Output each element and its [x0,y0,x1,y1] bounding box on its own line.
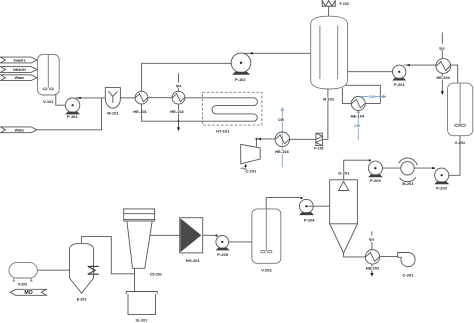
svg-text:lps: lps [369,238,374,242]
wire M-101 to HE-101 [120,97,135,99]
wire HE-101 top riser to P-102 [142,63,240,91]
pump P-101 [65,98,80,114]
wire HG-201 to P-205 [203,234,216,236]
wire V-203 to E-201 [37,269,69,271]
wire F-101 to R-101 bottom [322,89,328,140]
compressor C-101 [241,144,261,164]
svg-text:HE-202: HE-202 [366,265,380,270]
wire E-201 vapor line [82,237,135,274]
wire cyclone downcomer to SL-201 [134,268,136,291]
svg-text:CW: CW [354,124,361,128]
svg-text:HE-104: HE-104 [351,113,365,118]
furnace coil serpentine [142,98,258,121]
rotary feeder M-201 [399,158,418,182]
stream tag NH4OH [1,67,38,73]
wire HE-201 to V-201 [451,65,458,83]
wire P-102 to R-101 [244,52,311,54]
cooling water in HE-104 (blue) [357,111,359,140]
pump P-202 [434,168,449,184]
svg-text:lps: lps [176,84,181,88]
condensate line HE-202 [371,264,373,273]
svg-text:C-201: C-201 [403,272,415,277]
svg-text:C-101: C-101 [245,169,257,174]
stream tag Sugars [1,57,38,63]
svg-text:D-201: D-201 [338,171,350,176]
wire CS-201 to HG-201 [150,234,180,236]
svg-text:P-203: P-203 [370,178,381,183]
pump P-203 [368,161,383,177]
wire V-202 to P-204 [266,197,301,209]
air intake squiggle C-101 [241,165,247,170]
wire V-201 to P-202 [443,136,460,176]
stream tag Water [1,75,38,81]
svg-text:P-202: P-202 [436,185,447,190]
pump P-102 [231,53,251,75]
svg-text:CW: CW [278,118,285,122]
heat exchanger HE-202 [365,250,379,264]
svg-text:Water: Water [15,76,25,80]
homogenizer HG-201 [180,218,203,253]
svg-text:CW: CW [369,95,376,99]
wire HE-101 to HE-102 [148,97,172,99]
svg-text:Water: Water [15,128,25,132]
wire P-201 to HE-201 [404,64,436,66]
heat exchanger HE-201 [436,59,451,74]
tank V-101 [38,54,60,95]
svg-text:M-201: M-201 [402,181,414,186]
svg-text:HE-102: HE-102 [170,109,184,114]
stream tag Water (bottom) [1,127,38,133]
pump P-205 [216,236,230,251]
drum V-203 [9,263,37,282]
heat exchanger HE-102 [172,91,185,104]
heat exchanger HE-101 [135,91,148,104]
svg-text:V-202: V-202 [261,268,272,273]
svg-text:NH4OH: NH4OH [13,68,26,72]
furnace HT-101 dashed box [202,92,262,125]
wire D-201 to P-203 [344,160,370,180]
blower C-201 [398,252,415,266]
filter F-101 [316,133,323,145]
tank V-202 [252,209,281,263]
heat exchanger HE-103 [275,132,290,147]
mixer M-101 [105,88,120,109]
svg-text:V-101: V-101 [43,99,54,104]
reactor R-101 [311,16,348,89]
condensate line HE-102 [178,104,180,127]
wire water riser [37,98,102,130]
steam line lps into HE-201 [441,32,443,58]
svg-text:P-205: P-205 [217,252,228,257]
svg-text:HT-101: HT-101 [216,128,230,133]
svg-text:CS-201: CS-201 [150,273,162,277]
svg-text:SL-201: SL-201 [136,319,148,323]
svg-text:HG-201: HG-201 [186,258,201,263]
svg-text:lps: lps [439,46,444,50]
svg-text:MO: MO [24,290,32,296]
svg-text:P-201: P-201 [394,82,405,87]
wire C-101 to HE-103 [256,139,275,148]
svg-text:V-203: V-203 [18,283,27,287]
cyclone CS-201 [124,209,155,268]
wire D-201 to HE-202 [344,253,366,257]
tank V-201 [448,83,473,136]
svg-text:Sugars: Sugars [13,59,25,63]
svg-text:HE-103: HE-103 [275,149,289,154]
svg-text:HE-201: HE-201 [436,75,450,80]
bagging unit SL-201 [126,292,157,315]
filter F-102 [322,0,335,6]
pump P-201 [392,65,406,80]
wire R-101 to P-201 [348,71,399,73]
steam line lps into HE-202 [371,231,373,249]
wire HE-202 to C-201 [380,256,398,258]
svg-text:HE-101: HE-101 [133,109,147,114]
steam line lps into HE-102 [178,73,180,91]
wire V-101 to P-101 [56,94,72,105]
wire M-201 to P-202 [414,167,434,169]
wire P-204 to D-201 [306,205,329,207]
evaporator E-201 [70,243,99,293]
svg-text:R-101: R-101 [323,97,335,102]
svg-text:F-102: F-102 [340,2,349,6]
stream tag MO [10,289,46,296]
recycle loop R-101 / HE-104 [342,85,380,103]
wire P-101 to M-101 [76,97,105,99]
wire P-205 to V-202 [222,241,252,243]
wire P-203 to M-201 [375,167,400,169]
svg-text:P-204: P-204 [304,218,315,223]
heat exchanger HE-104 [351,97,365,111]
spray dryer D-201 [330,180,358,253]
svg-text:M-101: M-101 [107,111,119,116]
svg-text:P-102: P-102 [235,77,246,82]
cooling water line HE-103 (blue) [281,111,283,168]
svg-text:P-101: P-101 [67,114,78,119]
svg-text:F-101: F-101 [314,146,323,150]
cooling water out HE-104 (blue) [362,96,384,98]
pump P-204 [299,199,314,215]
svg-text:E-201: E-201 [77,297,87,301]
condensate line HE-201 [441,73,443,91]
wire HE-103 to F-101 [290,138,316,140]
wire HE-102 to furnace coil [185,97,250,99]
wire R-101 top to F-102 [328,6,330,16]
